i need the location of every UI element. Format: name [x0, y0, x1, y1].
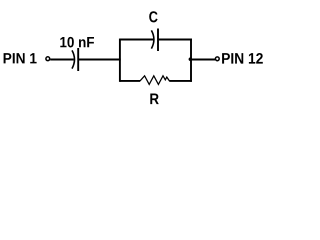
terminal PIN 1	[46, 57, 50, 61]
wire	[191, 59, 215, 61]
junction dot	[189, 58, 192, 61]
capacitor 10nF curved plate	[72, 50, 75, 68]
wire	[50, 59, 74, 61]
label PIN 1	[4, 53, 37, 63]
terminal PIN 12	[215, 57, 219, 61]
wire bottom edge left segment	[120, 80, 141, 82]
resistor R zigzag	[140, 76, 169, 85]
wire top edge right segment	[158, 39, 192, 41]
capacitor 10nF straight plate	[77, 48, 79, 71]
label C	[149, 11, 157, 22]
label 10 nF	[60, 37, 94, 48]
capacitor C straight plate	[157, 29, 159, 52]
wire bottom edge right segment	[169, 80, 192, 82]
label R	[150, 94, 159, 105]
wire	[78, 59, 121, 61]
capacitor C curved plate	[151, 30, 154, 48]
wire left edge of parallel loop	[119, 39, 121, 82]
label PIN 12	[222, 53, 263, 64]
wire right edge of parallel loop	[190, 39, 192, 82]
wire top edge left segment	[120, 39, 154, 41]
